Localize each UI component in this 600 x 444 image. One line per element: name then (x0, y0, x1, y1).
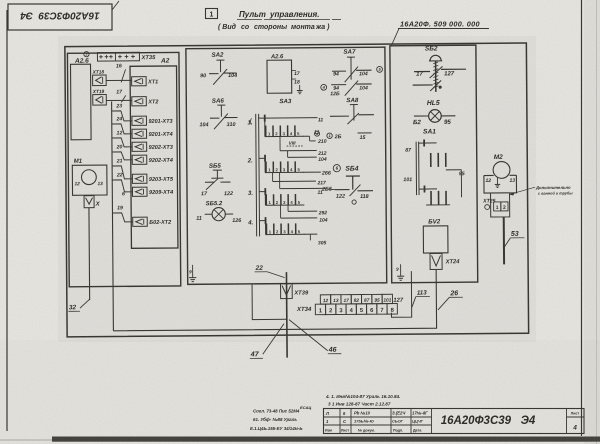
ground symbol below right panel (396, 264, 404, 280)
lamp HL5 (413, 100, 456, 126)
switch SB4 (333, 164, 373, 204)
button SB5 (201, 163, 233, 198)
title block grid (324, 409, 585, 434)
wire 47 label (250, 324, 285, 359)
node group 2 comb (247, 154, 335, 196)
connector XT19 (92, 89, 107, 105)
label A2.6 with marker (74, 52, 89, 65)
right panel enclosure (390, 45, 478, 283)
title block sheet cell (571, 412, 580, 432)
terminal strip XT35 (97, 52, 169, 65)
switch SA6 (199, 97, 237, 129)
node group 4 comb (247, 217, 326, 247)
wire bus from A2 column down (112, 101, 114, 330)
wire 26 long run XT24 to panel A2 (113, 269, 437, 330)
wire 22 drop from middle panel (252, 265, 287, 320)
wire 26 label (438, 290, 463, 310)
connector row 9209-ХТ4 wire 22 (112, 172, 173, 197)
connector row 9202-ХТ3 wire 12 (112, 130, 173, 152)
connector XT18 (92, 70, 107, 86)
connector XT24 (430, 253, 460, 269)
button SB2 mushroom two contacts (412, 45, 466, 92)
middle panel enclosure (186, 47, 387, 284)
wire 113 run with label (391, 271, 430, 317)
panel A2 enclosure (67, 52, 180, 286)
ground symbol middle panel bottom-left (189, 265, 196, 282)
switch SA8 two rows (314, 97, 374, 141)
inverted stamp box 16A20F3C39 top-left (8, 1, 119, 30)
outer enclosure boundary (65, 43, 529, 337)
connector XT25 (482, 193, 510, 217)
node group 1 comb (247, 114, 326, 163)
wire 46-47 main drop with connector XT39 (280, 272, 309, 358)
switch SA7 two rows (320, 48, 382, 97)
connector row 9201-ХТ4 wire 24 (112, 116, 173, 139)
connector row Б02-ХТ2 wire 19 (112, 205, 171, 227)
connector row XT1 wire 16 (106, 63, 158, 86)
title block document number cell (441, 415, 536, 427)
title block row entries (325, 411, 428, 433)
document number 16A20F.509000.000 with leader (391, 20, 489, 47)
wiring bus vertical pair (256, 114, 260, 237)
switch SA1 block (403, 128, 465, 205)
block A2.6 box (71, 64, 92, 140)
connector row XT2 wire 17 (106, 89, 158, 106)
sheet frame left border (6, 10, 8, 431)
wire 53 vertical (504, 217, 525, 265)
lamp SB5.2 (196, 201, 242, 224)
connector row 9202-ХТ4 wire 20 (112, 144, 173, 165)
motor M2 (484, 154, 517, 193)
switch SA2 (200, 51, 237, 84)
note text with arrow (510, 185, 573, 196)
node group 3 comb (248, 188, 328, 225)
wire from M1 connector X down (88, 208, 91, 300)
revision note lines (250, 394, 400, 431)
wire number 6 annotation (122, 191, 125, 197)
connector row 9203-ХТ5 wire 21 (112, 158, 174, 184)
electromagnet EV2 (423, 218, 448, 253)
terminal strip XT34 (296, 294, 404, 315)
block A2 connector column (130, 66, 178, 248)
block SA3 (A2.6) (267, 54, 303, 105)
connector row 9201-ХТ3 wire 23 (112, 103, 173, 126)
sheet frame bottom edge band (0, 437, 600, 442)
connector X of M1 (84, 196, 101, 208)
drawing title: position 1 Pult upravleniya (206, 9, 342, 32)
wire 46 label (289, 319, 341, 354)
sheet frame right border (582, 0, 597, 444)
wire 32 label (68, 299, 89, 311)
motor M1 (72, 159, 107, 196)
